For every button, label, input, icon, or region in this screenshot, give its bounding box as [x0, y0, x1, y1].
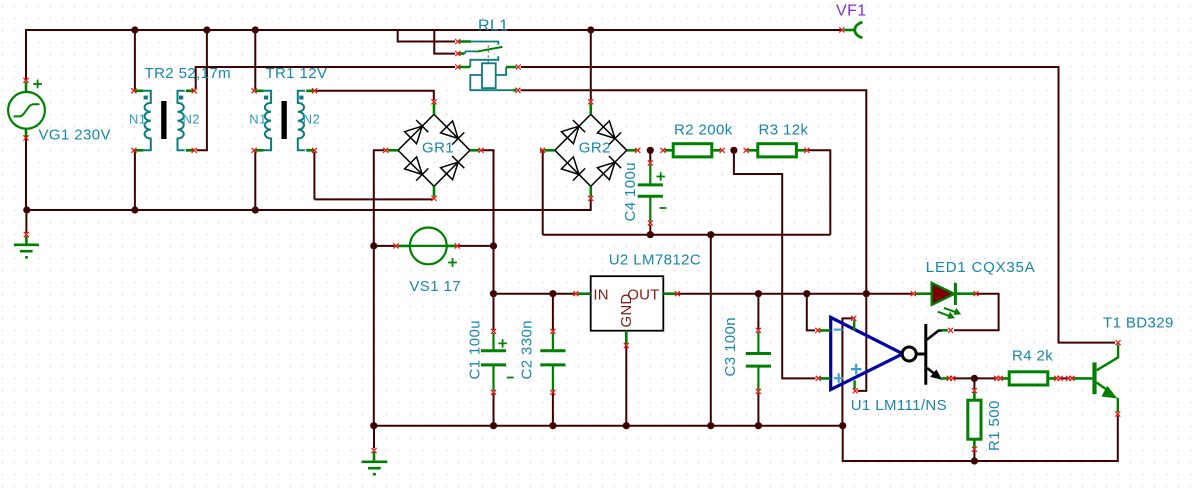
wire R2/R3 node to U1 + input [734, 150, 816, 378]
node U2 IN / C2 [549, 290, 556, 297]
voltage source VS1 [410, 228, 447, 265]
wire R1 bottom link [973, 450, 975, 461]
wire C2 top drop [552, 294, 554, 330]
wire VS1 node down to ground rail [373, 246, 375, 426]
wire VS1 left pin [374, 245, 395, 247]
transformer TR2 [143, 91, 150, 151]
svg-text:N1: N1 [249, 112, 266, 127]
svg-text:T1 BD329: T1 BD329 [1103, 315, 1174, 332]
node bottom rail / C2 [549, 422, 556, 429]
bridge rectifier GR2 [555, 114, 627, 186]
node left rail / TR1 [252, 206, 259, 213]
relay RL1 [471, 42, 498, 45]
wire C4 top link [649, 150, 651, 161]
node bottom rail / U2 GND [623, 422, 630, 429]
wire left ground stem [25, 210, 27, 233]
resistor R1 [968, 400, 981, 439]
svg-text:C4 100u: C4 100u [622, 162, 639, 222]
wire TR2 primary top feed [134, 30, 136, 90]
wire U1 emitter to R4 [954, 377, 995, 379]
wire R1 top link [973, 378, 975, 389]
node bottom rail / ground [370, 422, 377, 429]
wire C3 top drop [757, 294, 759, 329]
transistor T1 BD329 [1092, 362, 1096, 394]
wire node to C1 and U2 IN [493, 246, 495, 330]
wire R3 right to mid rail [808, 150, 830, 234]
svg-text:GND: GND [618, 294, 635, 328]
resistor R2 [673, 144, 712, 157]
voltmeter probe VF1 [844, 29, 856, 32]
capacitor C4 [649, 165, 651, 222]
wire GR1 AC right down [483, 150, 494, 246]
capacitor C2 [552, 333, 554, 391]
svg-text:LED1 CQX35A: LED1 CQX35A [926, 259, 1036, 276]
svg-text:TR1 12V: TR1 12V [265, 65, 327, 82]
wire VS1 right pin [459, 245, 494, 247]
node left rail / TR2 [131, 206, 138, 213]
svg-text:C1 100u: C1 100u [467, 320, 484, 380]
wire TR1 secondary bottom down [313, 152, 315, 200]
wire R4 to T1 base [1062, 377, 1068, 379]
svg-text:C3 100n: C3 100n [722, 317, 739, 377]
wire GR2 AC top feed [590, 30, 592, 100]
wire U2 OUT rail [678, 293, 912, 295]
wire C4 bottom link [649, 225, 651, 235]
svg-text:N2: N2 [303, 112, 320, 127]
wire C2 bottom drop [552, 393, 554, 425]
svg-text:R2 200k: R2 200k [674, 122, 733, 139]
node top rail / TR1 primary [252, 26, 259, 33]
wire C1 bottom drop [493, 393, 495, 425]
wire GR2 AC left drop [540, 150, 543, 234]
wire U1 V+ pin to bottom rail [842, 318, 852, 425]
wire TR1 secondary to GR1 AC bottom [314, 198, 432, 200]
svg-text:VG1 230V: VG1 230V [39, 127, 111, 144]
wire OUT-rail to bottom rail crossover [710, 235, 712, 426]
node top rail / GR2 [587, 26, 594, 33]
node OUT rail / - input [803, 290, 810, 297]
svg-text:R3 12k: R3 12k [759, 122, 809, 139]
node left rail / VG1 ground [23, 206, 30, 213]
wire U2 GND drop [625, 346, 627, 426]
node mid rail / C4 [647, 231, 654, 238]
svg-text:VF1: VF1 [836, 3, 867, 20]
wire GR1 AC left to VS1+ [374, 150, 384, 246]
LED LED1 [932, 283, 955, 305]
wire bottom rail to T1 emitter [843, 416, 1118, 462]
wire TR1 secondary top to GR1 AC top [316, 91, 434, 101]
wire RL1 contact common feed [434, 30, 455, 54]
wire TR2 primary bottom return [134, 152, 136, 211]
capacitor C3 [757, 332, 759, 390]
node VS1 left [370, 242, 377, 249]
wire top rail [26, 30, 842, 80]
node bottom rail / U1 V+ [839, 422, 846, 429]
svg-text:RL1: RL1 [478, 18, 509, 35]
node VS1 right / GR1 [490, 242, 497, 249]
node bottom rail / crossover [707, 422, 714, 429]
regulator U2 LM7812C [591, 276, 664, 331]
wire TR1 primary top feed [254, 30, 256, 90]
wire RL1 coil- to U1 V- pin [521, 90, 867, 391]
wire mid rail 234 [543, 234, 831, 236]
svg-text:VS1 17: VS1 17 [409, 278, 461, 295]
node mid rail / crossover [707, 231, 714, 238]
svg-text:GR1: GR1 [422, 140, 454, 157]
node OUT rail / RL1 coil- [863, 290, 870, 297]
node U2 IN / C1 [490, 290, 497, 297]
ground right [373, 452, 376, 460]
wire RL1 coil+ to T1 collector [521, 67, 1115, 343]
ground left [25, 236, 28, 244]
svg-text:GR2: GR2 [579, 140, 611, 157]
wire bottom-left rail 208 [26, 200, 591, 210]
svg-text:TR2 52,17m: TR2 52,17m [145, 65, 232, 82]
transformer TR1 [264, 91, 271, 151]
wire RL1 contact pin1 feed [398, 30, 455, 42]
node top rail / TR2 primary [131, 26, 138, 33]
svg-text:N2: N2 [183, 112, 200, 127]
svg-text:U2 LM7812C: U2 LM7812C [609, 252, 701, 269]
node R2 / R3 [730, 147, 737, 154]
wire OUT rail to U1 - input [807, 294, 815, 331]
wire LED cathode to U1 output collector [954, 294, 999, 331]
bridge rectifier GR1 [398, 114, 470, 186]
wire to U2 IN pin [494, 293, 575, 295]
wire VG1 bottom to left rail [25, 137, 27, 211]
svg-text:R4 2k: R4 2k [1012, 348, 1053, 365]
voltage source VG1 [8, 92, 45, 129]
node bottom wire / R1 [971, 457, 978, 464]
svg-text:C2 330n: C2 330n [519, 320, 536, 380]
svg-text:N1: N1 [129, 112, 146, 127]
node top rail / TR2 secondary [203, 26, 210, 33]
wire C3 bottom drop [757, 393, 759, 426]
svg-text:U1 LM111/NS: U1 LM111/NS [851, 397, 947, 414]
comparator U1 LM111/NS [831, 317, 903, 389]
wire TR1 primary bottom return [254, 152, 256, 211]
capacitor C1 [492, 333, 494, 391]
resistor R3 [758, 144, 797, 157]
node OUT rail / C3 [755, 290, 762, 297]
wire TR2 secondary top to RL1 NO contact [196, 67, 455, 90]
node R4 / R1 [971, 375, 978, 382]
node bottom rail / C3 [755, 422, 762, 429]
svg-text:IN: IN [593, 286, 608, 303]
wire bottom rail [374, 425, 843, 427]
node GR2+ / C4 / R2 [647, 147, 654, 154]
wire right ground stem [373, 426, 375, 449]
resistor R4 [1009, 372, 1048, 385]
svg-text:R1 500: R1 500 [986, 400, 1003, 451]
node bottom rail / C1 [490, 422, 497, 429]
wire TR2 secondary bottom to top rail [197, 30, 207, 150]
